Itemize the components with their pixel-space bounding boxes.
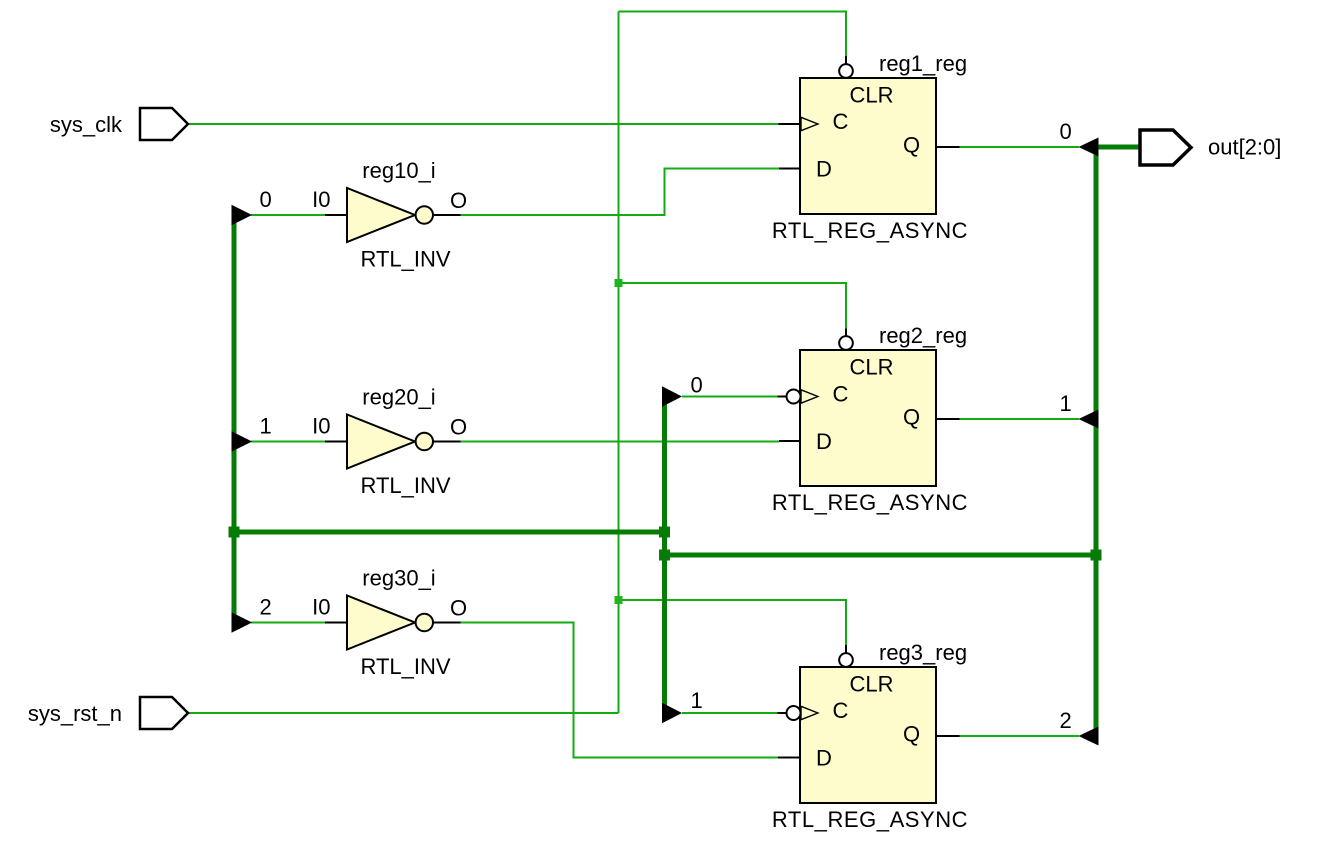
svg-text:reg2_reg: reg2_reg	[879, 323, 967, 348]
node bus junction mid y532	[659, 527, 670, 538]
svg-text:I0: I0	[312, 414, 330, 439]
svg-text:CLR: CLR	[850, 355, 894, 380]
svg-text:I0: I0	[312, 595, 330, 620]
wire reg10_i output to reg1 D	[461, 169, 780, 216]
wire bus middle vertical	[662, 397, 667, 714]
svg-text:D: D	[816, 429, 832, 454]
wire pin stub reg1 C	[779, 123, 801, 125]
port sys_rst_n	[28, 697, 188, 729]
wire pin stub reg30_i input	[325, 622, 347, 624]
svg-text:RTL_REG_ASYNC: RTL_REG_ASYNC	[772, 218, 968, 243]
svg-text:reg10_i: reg10_i	[362, 158, 435, 183]
node bus tap arrow bit2 to reg30_i	[232, 612, 253, 633]
wire pin stub reg1 CLR	[845, 56, 847, 64]
node bus tap arrow bit0 from reg1 Q	[1079, 138, 1099, 157]
node bus tap arrow bit1 from reg2 Q	[1079, 410, 1099, 429]
svg-text:CLR: CLR	[850, 83, 894, 108]
wire sys_rst_n top run to reg1 CLR	[619, 12, 847, 57]
wire reg1 Q output	[960, 146, 1080, 148]
svg-text:Q: Q	[903, 133, 920, 158]
svg-text:reg30_i: reg30_i	[362, 566, 435, 591]
svg-text:D: D	[816, 746, 832, 771]
wire reg2 Q output	[960, 418, 1080, 420]
svg-text:out[2:0]: out[2:0]	[1208, 135, 1281, 160]
svg-text:RTL_REG_ASYNC: RTL_REG_ASYNC	[772, 490, 968, 515]
svg-text:0: 0	[260, 187, 272, 212]
svg-text:RTL_INV: RTL_INV	[360, 247, 450, 272]
svg-text:0: 0	[691, 373, 703, 398]
wire pin stub reg3 CLR	[845, 645, 847, 653]
svg-text:1: 1	[260, 414, 272, 439]
wire bus horizontal y555	[665, 553, 1097, 558]
svg-text:O: O	[450, 188, 467, 213]
register U reg1_reg	[800, 64, 936, 214]
wire reg20_i output to reg2 D	[461, 441, 780, 443]
wire reg3 C input	[682, 712, 778, 714]
svg-text:2: 2	[260, 595, 272, 620]
wire pin stub reg20_i input	[325, 441, 347, 443]
svg-text:reg20_i: reg20_i	[362, 385, 435, 410]
wire pin stub reg2 CLR	[845, 329, 847, 337]
wire sys_rst_n vertical riser	[618, 12, 620, 714]
svg-text:O: O	[450, 415, 467, 440]
wire pin stub reg30_i output	[433, 622, 461, 624]
svg-text:0: 0	[1060, 119, 1072, 144]
svg-text:C: C	[833, 382, 849, 407]
node bus tap arrow bit0 to reg2 C	[662, 386, 682, 407]
svg-text:2: 2	[1060, 708, 1072, 733]
svg-text:Q: Q	[903, 722, 920, 747]
wire pin stub reg2 D	[779, 440, 800, 442]
wire inv reg10_i input	[251, 214, 325, 216]
wire sys_rst_n branch to reg3 CLR	[619, 600, 847, 645]
svg-text:1: 1	[1060, 391, 1072, 416]
svg-text:sys_rst_n: sys_rst_n	[28, 701, 122, 726]
inverter reg10_i	[347, 188, 433, 242]
svg-text:C: C	[833, 109, 849, 134]
register U reg2_reg	[787, 336, 937, 486]
wire reg3 Q output	[960, 735, 1080, 737]
node bus tap arrow bit2 from reg3 Q	[1079, 727, 1099, 746]
svg-text:sys_clk: sys_clk	[50, 112, 123, 137]
node bus junction mid y555	[659, 550, 670, 561]
node bus tap arrow bit1 to reg3 C	[662, 703, 682, 724]
wire sys_clk net	[188, 123, 779, 125]
wire bus to out port	[1094, 145, 1141, 150]
svg-text:C: C	[833, 698, 849, 723]
wire reg2 C input	[682, 396, 778, 398]
wire bus horizontal y532	[234, 530, 665, 535]
wire pin stub reg3 C	[778, 712, 787, 714]
wire pin stub reg1 D	[779, 168, 800, 170]
wire bus left vertical out[2:0]	[232, 212, 237, 626]
svg-text:Q: Q	[903, 405, 920, 430]
wire pin stub reg10_i input	[325, 214, 347, 216]
svg-text:RTL_INV: RTL_INV	[360, 473, 450, 498]
wire pin stub reg10_i output	[433, 214, 461, 216]
wire sys_rst_n branch to reg2 CLR	[619, 283, 847, 329]
svg-text:O: O	[450, 596, 467, 621]
port out[2:0]	[1140, 130, 1281, 165]
wire pin stub reg3 Q	[936, 735, 960, 737]
wire reg30_i output to reg3 D	[461, 623, 779, 758]
wire bus right vertical	[1094, 147, 1099, 736]
wire pin stub reg20_i output	[433, 441, 461, 443]
svg-text:RTL_INV: RTL_INV	[360, 654, 450, 679]
wire inv reg30_i input	[251, 622, 325, 624]
svg-text:I0: I0	[312, 187, 330, 212]
wire sys_rst_n horizontal	[188, 712, 619, 714]
register U reg3_reg	[787, 653, 937, 803]
svg-text:D: D	[816, 157, 832, 182]
wire pin stub reg2 C	[778, 396, 787, 398]
svg-text:CLR: CLR	[850, 672, 894, 697]
svg-text:reg1_reg: reg1_reg	[879, 51, 967, 76]
inverter reg30_i	[347, 596, 433, 650]
svg-text:1: 1	[691, 688, 703, 713]
node bus tap arrow bit1 to reg20_i	[232, 431, 253, 452]
wire pin stub reg3 D	[778, 757, 800, 759]
node bus junction right y555	[1091, 550, 1102, 561]
inverter reg20_i	[347, 415, 433, 469]
node bus junction left	[229, 527, 240, 538]
wire pin stub reg2 Q	[936, 418, 960, 420]
port sys_clk	[50, 108, 188, 140]
svg-text:reg3_reg: reg3_reg	[879, 640, 967, 665]
wire inv reg20_i input	[251, 441, 325, 443]
node junction sys_rst_n at reg3 branch	[615, 596, 623, 604]
node bus tap arrow bit0 to reg10_i	[232, 205, 253, 226]
wire pin stub reg1 Q	[936, 146, 960, 148]
node junction sys_rst_n at reg2 branch	[615, 279, 623, 287]
svg-text:RTL_REG_ASYNC: RTL_REG_ASYNC	[772, 807, 968, 832]
